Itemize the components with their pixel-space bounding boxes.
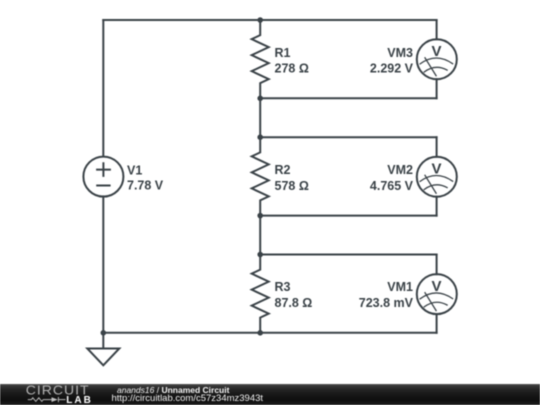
wire: left column, top rail down to V1 [102,20,104,156]
resistor R3 [252,255,269,333]
node top junction (260.2,20) [257,17,263,23]
node E junction (260.2,332.8) [257,330,263,336]
node D junction (260.2,254.5) [257,252,263,258]
svg-text:R1: R1 [275,46,291,60]
wire: rail from node C to VM2 bottom [260,215,436,217]
node A junction (260.2,98.3) [257,96,263,102]
wire: bottom rail from ground node to VM1 column [103,332,436,334]
voltmeter VM1 [417,274,457,314]
wire: rail from node A to VM3 bottom [260,97,436,99]
wire: VM2 top and bottom leads [436,137,438,215]
resistor R2 [252,137,269,215]
voltage source V1 [83,157,123,197]
svg-text:VM3: VM3 [387,46,413,60]
wire: rail from node B to VM2 top [260,136,436,138]
node B junction (260.2,137.2) [257,134,263,140]
node C junction (260.2,215.6) [257,213,263,219]
voltmeter VM2 [417,157,457,197]
svg-text:87.8 Ω: 87.8 Ω [275,296,313,310]
svg-text:R3: R3 [275,280,291,294]
wire: middle column between node C and node D [259,216,261,255]
svg-text:VM1: VM1 [387,280,413,294]
node ground junction (103.3,332.8) [101,330,107,336]
ground [87,333,119,366]
svg-text:578 Ω: 578 Ω [275,179,309,193]
svg-text:V1: V1 [127,163,142,177]
wire: top rail from V1 column to VM3 column [103,19,436,21]
svg-text:LAB: LAB [66,395,93,405]
svg-text:2.292 V: 2.292 V [370,62,414,76]
wire: VM3 top and bottom leads [436,20,438,98]
svg-text:278 Ω: 278 Ω [275,62,309,76]
wire: left column, V1 down to bottom rail [102,196,104,332]
voltmeter VM3 [417,39,457,79]
resistor R1 [252,20,269,98]
svg-text:VM2: VM2 [387,163,413,177]
svg-text:R2: R2 [275,163,291,177]
svg-text:4.765 V: 4.765 V [370,179,414,193]
svg-text:723.8 mV: 723.8 mV [359,296,414,310]
svg-text:7.78 V: 7.78 V [127,179,164,193]
wire: VM1 top and bottom leads [436,255,438,333]
wire: middle column between node A and node B [259,98,261,137]
wire: rail from node D to VM1 top [260,254,436,256]
